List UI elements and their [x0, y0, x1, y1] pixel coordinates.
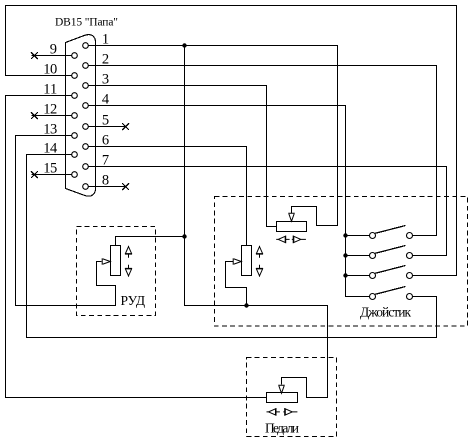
- pin 3 circle: [83, 83, 89, 89]
- svg-text:Джойстик: Джойстик: [360, 305, 411, 320]
- pin 11 circle: [72, 93, 78, 99]
- no-connect X pin 8: [122, 183, 129, 190]
- dashed box RUD: [77, 227, 156, 316]
- svg-text:РУД: РУД: [121, 293, 146, 308]
- wire RUD top pin: [116, 237, 185, 246]
- movement arrow left pedals: [267, 408, 280, 416]
- junction dot pin1/branch: [182, 43, 186, 47]
- switch S2 blade: [375, 246, 405, 254]
- wire switch common stub S3: [346, 275, 370, 277]
- potentiometer R3 RUD body: [111, 246, 121, 276]
- wire pin 3 to X-pot left pin: [88, 86, 276, 227]
- wire pin 2 to switch S1: [88, 66, 436, 236]
- svg-text:5: 5: [102, 112, 109, 128]
- potentiometer R1 X-axis body: [277, 222, 307, 232]
- pin 6 circle: [83, 144, 89, 150]
- svg-text:15: 15: [43, 160, 57, 176]
- wiper arrow Y-pot: [233, 258, 241, 265]
- pin 1 circle: [83, 43, 89, 49]
- svg-text:8: 8: [102, 172, 109, 188]
- connector J1 DB15 body: [66, 35, 96, 197]
- svg-text:6: 6: [102, 132, 109, 148]
- wire pin 14 to switch S4: [27, 155, 437, 338]
- wire pin 15 stub: [32, 174, 72, 176]
- movement arrow right pedals: [283, 408, 297, 416]
- pin 13 circle: [72, 133, 78, 139]
- wire pin 11 to pedals pot left pin: [6, 96, 267, 398]
- no-connect X pin 5: [122, 123, 129, 130]
- wire pin 13 to RUD wiper: [16, 136, 116, 306]
- svg-text:DB15 "Папа": DB15 "Папа": [55, 17, 118, 29]
- wiper arrow pedals: [278, 385, 285, 393]
- switch S2 left contact: [370, 253, 376, 259]
- switch S4 blade: [375, 287, 405, 295]
- pin 4 circle: [83, 103, 89, 109]
- svg-text:14: 14: [43, 140, 58, 156]
- svg-text:7: 7: [102, 152, 109, 168]
- pin 7 circle: [83, 164, 89, 170]
- movement arrow right X-pot: [292, 236, 306, 244]
- no-connect X pin 9: [31, 52, 38, 59]
- movement arrow up Y-pot: [256, 246, 263, 258]
- pin 10 circle: [72, 73, 78, 79]
- wire switch common stub S1: [346, 235, 370, 237]
- wire RUD wiper lower path: [115, 286, 117, 306]
- svg-text:13: 13: [43, 121, 57, 137]
- switch S1 right contact: [407, 233, 413, 239]
- svg-text:2: 2: [102, 51, 109, 67]
- wiper arrow RUD: [102, 258, 110, 265]
- movement arrow down Y-pot: [256, 265, 263, 277]
- wire pin 5 stub: [88, 126, 125, 128]
- switch S3 blade: [375, 266, 405, 274]
- wire switch common stub S2: [346, 255, 370, 257]
- junction dot RUD top: [182, 234, 186, 238]
- potentiometer R4 pedals body: [267, 393, 298, 403]
- pin 12 circle: [72, 113, 78, 119]
- svg-text:11: 11: [43, 81, 57, 97]
- switch S1 left contact: [370, 233, 376, 239]
- movement arrow left X-pot: [276, 236, 289, 244]
- pin 14 circle: [72, 152, 78, 158]
- svg-text:3: 3: [102, 71, 109, 87]
- no-connect X pin 15: [31, 171, 38, 178]
- svg-text:12: 12: [43, 101, 57, 117]
- pin 15 circle: [72, 172, 78, 178]
- svg-text:10: 10: [43, 61, 57, 77]
- dashed box Joystick: [215, 197, 468, 327]
- svg-text:9: 9: [50, 41, 57, 57]
- movement arrow down RUD: [125, 265, 132, 277]
- junction dot common S1: [343, 233, 347, 237]
- junction dot common S2: [343, 253, 347, 257]
- wire pin 12 stub: [32, 115, 72, 117]
- svg-text:4: 4: [102, 91, 110, 107]
- dashed box Pedals: [247, 358, 337, 437]
- potentiometer R2 Y-axis body: [242, 246, 252, 276]
- svg-text:1: 1: [102, 31, 109, 47]
- wire pin 6 to Y-pot top: [88, 147, 246, 246]
- wire pin 1 branch to RUD top and common: [185, 46, 328, 398]
- pin 9 circle: [72, 53, 78, 59]
- switch S3 right contact: [407, 273, 413, 279]
- wire pin 9 stub: [32, 55, 72, 57]
- wire pin 8 stub: [88, 186, 125, 188]
- pin 8 circle: [83, 184, 89, 190]
- switch S3 left contact: [370, 273, 376, 279]
- wiper arrow X-pot: [288, 213, 295, 221]
- junction dot Y-pot wiper: [244, 303, 248, 307]
- svg-text:Педали: Педали: [265, 421, 299, 436]
- wire pin 1 bus: [88, 46, 337, 226]
- switch S4 left contact: [370, 294, 376, 300]
- wire pin 4 to switch common: [88, 106, 369, 297]
- switch S1 blade: [375, 226, 405, 234]
- movement arrow up RUD: [125, 246, 132, 258]
- junction dot common S3: [343, 273, 347, 277]
- wire pin 10 to switch S3: [6, 6, 457, 276]
- switch S2 right contact: [407, 253, 413, 259]
- switch S4 right contact: [407, 294, 413, 300]
- wire pin 7 to switch S2: [88, 167, 446, 256]
- pin 5 circle: [83, 124, 89, 130]
- pin 2 circle: [83, 63, 89, 69]
- wire Y-pot wiper path: [226, 262, 247, 306]
- no-connect X pin 12: [31, 112, 38, 119]
